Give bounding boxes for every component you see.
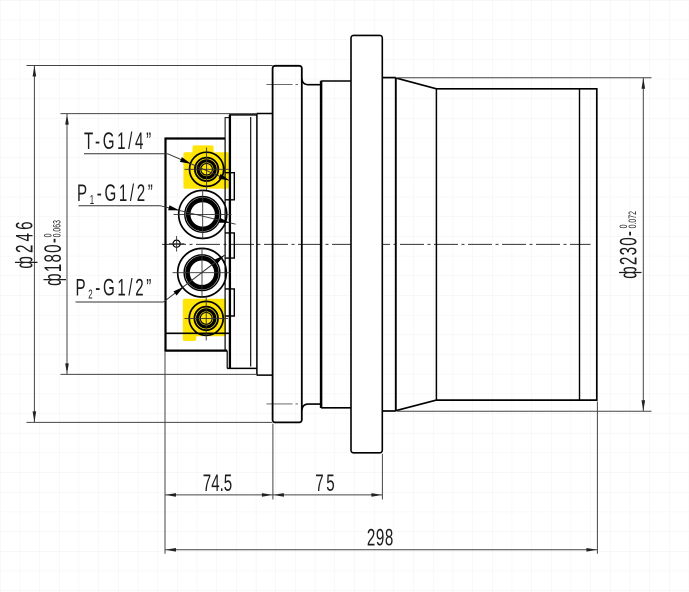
dimension 74.5 text [203,471,232,497]
label P1-G1/2 [77,181,155,208]
svg-text:0.063: 0.063 [51,220,63,237]
dimension 298 line [165,549,597,551]
spigot ring top edge [382,77,396,79]
T2 port circles [189,301,223,335]
main flange plate [351,35,382,452]
case section B [257,114,273,376]
highlight T port (yellow) [183,145,228,188]
drum left edge [395,78,397,411]
main centerline [162,243,591,245]
P2 port circles [178,248,227,297]
dimension d246 extension top [27,65,273,67]
section C top edge [321,80,351,82]
port block bottom step [226,351,228,369]
leader P2 [76,301,164,303]
svg-text:74.5: 74.5 [203,471,232,497]
dimension d230 extension bottom [397,410,652,412]
P2 port crosshair [173,248,232,298]
extension line drum right bottom [596,402,598,554]
port block cover outline [164,138,227,351]
heavy vertical case edge [320,81,323,408]
drum end cover line [579,89,581,400]
neck top with fillet [302,79,320,85]
label P2-G1/2 [76,275,154,302]
dimension d180 extension bottom [61,373,258,375]
flange collar [273,66,302,423]
tab 1 [225,173,234,200]
T port crosshair [185,148,229,192]
dimension 298 text [367,525,394,551]
dimension 74.5 line [165,494,273,496]
dimension d180 text [41,220,67,286]
extension line plate bottom [381,454,383,500]
tab 2 [225,233,234,258]
svg-text:ф180-: ф180- [41,237,67,286]
P1 port circles [179,190,227,238]
svg-text:P2-G1/2”: P2-G1/2” [76,275,154,302]
tab 3 [225,289,234,316]
T2 port crosshair [185,297,229,341]
section C bottom edge [321,407,351,409]
leader T [84,153,168,155]
dimension d230 line [642,78,644,412]
neck bottom with fillet [302,404,320,410]
dimension d246 text [12,218,38,268]
T port circles [190,152,224,186]
port block top step [225,118,230,138]
dimension d180 extension top [61,113,258,115]
highlight T2 port (yellow) [183,299,226,341]
case section A [227,115,257,369]
drum outline [396,78,597,411]
dimension d246 extension bottom [27,421,273,423]
leader P1 [79,205,161,207]
extension line collar bottom [272,424,274,500]
small bolt hole [173,240,180,247]
bolt circle centerline bottom (flange) [267,403,302,405]
P1 port crosshair [174,190,232,240]
extension line left bottom [164,352,166,554]
port block inner line bottom [165,332,230,334]
label T-G1/4 [84,129,154,155]
bolt circle centerline top (flange) [267,84,302,86]
dimension d230 text [616,211,642,279]
dimension 75 line [273,494,383,496]
dimension d180 line [66,114,68,375]
svg-text:75: 75 [315,471,337,497]
svg-text:298: 298 [367,525,394,551]
svg-text:0.072: 0.072 [626,211,638,228]
svg-text:ф246: ф246 [12,218,38,268]
svg-text:P1-G1/2”: P1-G1/2” [77,181,155,208]
spigot ring bottom edge [382,410,396,412]
dimension d246 line [33,66,35,423]
dimension 75 text [315,471,337,497]
svg-text:T-G1/4”: T-G1/4” [84,129,154,155]
dimension d230 extension top [397,77,652,79]
drum rim vertical [435,89,437,400]
svg-text:ф230-: ф230- [616,230,642,279]
